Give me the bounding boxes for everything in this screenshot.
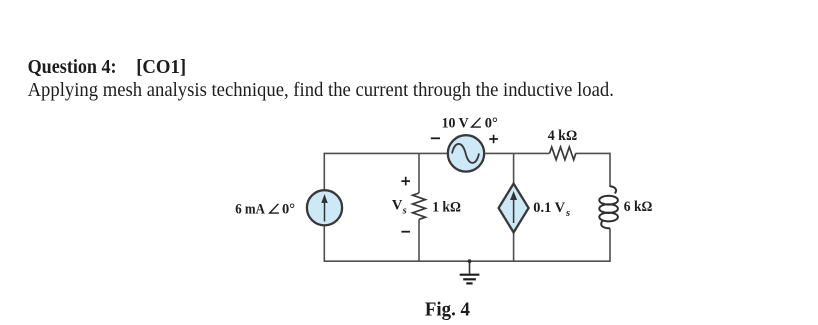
svg-text:V: V [392, 198, 403, 214]
svg-text:[CO1]: [CO1] [136, 57, 186, 78]
resistor R1 4k horizontal zigzag [550, 147, 576, 160]
ground junction dot [468, 259, 472, 263]
resistor R2 1k vertical zigzag [413, 193, 426, 219]
svg-text:s: s [402, 206, 407, 217]
label 6 kOhm [624, 199, 653, 215]
wire: top wire middle segment (voltage source to 4k resistor) [485, 152, 549, 154]
svg-text:Fig. 4: Fig. 4 [425, 298, 470, 320]
label Vs [392, 198, 407, 217]
label 1 kOhm [432, 200, 461, 216]
label 6 mA angle 0deg [235, 202, 295, 218]
wire: dependent source branch vertical [513, 153, 515, 261]
svg-text:1 kΩ: 1 kΩ [432, 200, 461, 216]
current source I1 6mA circle [307, 190, 342, 225]
voltage source V1 circle with sine [448, 135, 484, 171]
svg-text:0.1 V: 0.1 V [533, 200, 565, 216]
wire: left branch vertical (with current source) [323, 153, 325, 262]
inductor L1 coil [599, 186, 618, 228]
svg-text:Applying mesh analysis techniq: Applying mesh analysis technique, find t… [28, 80, 614, 101]
svg-text:Question 4:: Question 4: [28, 57, 117, 78]
svg-text:10 V: 10 V [442, 116, 470, 132]
svg-text:s: s [565, 208, 570, 219]
wire: bottom wire [324, 260, 610, 262]
question body text [28, 80, 614, 101]
wire: 1k resistor branch vertical [418, 153, 420, 261]
svg-text:0°: 0° [282, 202, 295, 218]
figure caption Fig. 4 [425, 298, 470, 320]
label 4 kOhm [548, 128, 578, 144]
svg-text:4 kΩ: 4 kΩ [548, 128, 578, 144]
plus sign above Vs [401, 177, 410, 186]
ground symbol [460, 261, 480, 283]
wire: right branch vertical (with inductor) [609, 153, 611, 262]
question heading text [28, 57, 187, 78]
svg-text:0°: 0° [485, 116, 498, 132]
dependent current source 0.1Vs diamond [499, 184, 529, 233]
wire: top wire left segment (top-left corner to voltage source) [324, 152, 447, 154]
plus sign right of voltage source [489, 135, 498, 144]
svg-text:6 kΩ: 6 kΩ [624, 199, 653, 215]
label 10 V angle 0deg [442, 116, 498, 132]
wire: top wire right segment (4k resistor to top-right corner) [576, 152, 611, 154]
svg-text:6 mA: 6 mA [235, 202, 265, 218]
minus sign below Vs [401, 231, 410, 233]
minus sign left of voltage source [431, 137, 440, 139]
label 0.1 Vs [533, 200, 570, 219]
